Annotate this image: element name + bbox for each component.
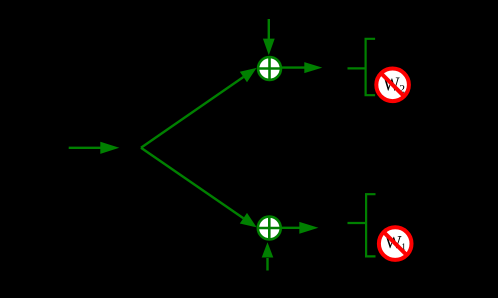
node bracket bottom — [348, 194, 376, 256]
prohibition sign W2 — [376, 69, 409, 102]
wire vertical arrow into top adder — [263, 19, 275, 55]
node bracket top — [348, 39, 376, 95]
wire branch upper diagonal — [141, 68, 257, 148]
adder node top (xor circle) — [258, 57, 282, 80]
wire output arrow bottom — [281, 222, 318, 234]
adder node bottom (xor circle) — [257, 217, 281, 240]
wire input arrow — [69, 142, 120, 154]
wire output arrow top — [282, 62, 323, 73]
wire branch lower diagonal — [141, 148, 257, 228]
wire vertical arrow into bottom adder — [262, 242, 274, 270]
prohibition sign W1 — [379, 227, 412, 260]
